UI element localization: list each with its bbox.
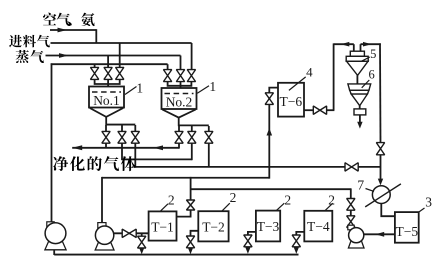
valve V3 on pump P2 discharge [122,229,136,237]
wire blower to T-5 [381,203,395,216]
arrow on H3 [59,53,69,58]
arrow up on T-6 riser [267,128,273,136]
label steam [16,50,29,63]
arrow drain T-2 [188,248,193,255]
callout line 6 [362,80,370,88]
valve V6b T-4 drain [292,235,300,247]
vessel No.1 [89,87,124,108]
cyclone C5 lid [350,51,364,56]
blower U7 circle [372,186,390,204]
label feed-gas [9,35,22,47]
wire pump P3 suction from T-5 [364,233,395,235]
wire H3 branch to valve V12 [107,56,109,69]
valve V1b [118,131,126,143]
arrow on H1 [58,28,68,33]
svg-text:6: 6 [368,68,374,82]
svg-text:2: 2 [328,193,335,208]
blower U7 diagonal [365,184,401,207]
wire left riser to pump P1 [51,63,53,222]
valve V9 on line C [345,163,358,171]
wire header Hc [102,177,269,179]
arrow cyclone6 dust outlet [357,122,362,129]
callout line 2a [160,204,168,212]
wire No.1 outlet stem [105,116,107,125]
arrow into blower [378,179,383,186]
valve V2a [175,131,183,143]
wire No.1 inlet drop [107,79,109,87]
wire top loop left column [333,43,335,110]
wire T-6 riser [268,92,270,179]
wire No.2 inlet manifold [168,81,192,86]
wire top loop right segment [361,43,381,45]
svg-text:No.2: No.2 [166,94,193,109]
svg-text:4: 4 [306,64,313,79]
wire line-A left drop [121,143,123,161]
valve V4 T-1 drain [138,236,146,248]
vessel No.1 funnel [90,108,123,117]
wire T-3 drain stub [248,232,256,236]
wire No.1 outlet manifold [106,124,135,126]
wire line-A [122,158,192,160]
valve V12 [104,67,112,79]
valve V22 [176,70,184,82]
wire T-6 outlet [304,109,313,111]
wire Hc drop to pump P2 [101,177,103,224]
arrow right on top loop [363,42,372,47]
wire valve stack to pump P3 [350,227,352,229]
wire H4 drop to valve V21 [167,64,169,70]
wire pump P2 discharge [114,232,149,234]
valve V21 [163,70,171,82]
level dashes in No.2 [165,93,194,95]
level dashes in No.1 [92,91,121,93]
wire header H4 recycle [51,63,168,65]
pump P2 [95,242,114,250]
valve V11 [90,67,98,79]
tank T-5 [395,212,419,243]
wire stub V2c to line-C [208,143,210,167]
wire header H1 air-ammonia [50,29,96,31]
valve V8 between T-1 and T-2 [186,200,194,210]
label purified-gas [53,156,68,171]
wire cyclone6 discharge [359,105,361,110]
valve V5 T-2 drain [186,236,194,248]
wire header H3 steam [46,55,181,57]
svg-text:T−5: T−5 [395,224,418,239]
arrow on purified-gas header [154,145,164,150]
vessel No.2 funnel [162,110,195,118]
svg-text:2: 2 [230,190,237,205]
rotary feeder under C6 [354,109,366,115]
wire header H2 feed-gas [51,42,192,44]
svg-text:7: 7 [357,177,364,192]
svg-text:T−4: T−4 [307,219,330,234]
svg-text:T−2: T−2 [202,220,225,235]
wire No.2 outlet manifold [179,124,209,126]
wire T-1 drain drop [141,233,143,236]
svg-text:3: 3 [425,195,432,210]
wire between stacked valves [350,209,352,216]
wire line-C left drop [134,143,136,168]
callout line 5 [362,57,370,61]
wire header Hd [191,188,351,190]
label air-ammonia [43,13,56,26]
arrow purified-gas outlet [72,145,82,150]
wire purified-gas header [72,147,179,149]
tank T-2 [198,211,228,241]
wire T-6 inlet from valve [268,93,270,103]
svg-text:2: 2 [284,193,291,208]
wire H2 drop to valve V23 [191,43,193,70]
svg-text:T−6: T−6 [279,94,302,109]
svg-text:T−1: T−1 [151,220,174,235]
wire cyclone inlet neck [353,44,355,51]
tank T-4 [304,211,332,242]
tank T-6 [278,83,304,117]
tank T-1 [149,211,177,240]
callout line 3 [419,208,425,212]
cyclone C6 cone [351,94,367,106]
valve V17 right of T-6 [313,106,326,114]
wire T-2 drain stub [191,231,199,237]
wire H2 branch to valve V13 [119,43,121,68]
valve V6 T-3 drain [244,235,252,247]
tank T-3 [256,211,280,242]
callout line 4 [289,77,306,91]
wire H4 stub to valve V11 [94,64,96,68]
svg-text:1: 1 [209,79,216,94]
wire bottom manifold [54,254,298,256]
wire valve V8 to T-1 side [176,209,191,217]
callout line 2c [276,203,284,210]
wire No.2 outlet stem [178,117,180,126]
valve V23 [187,70,195,82]
wire line-C [135,166,380,168]
wire Hd drop to valve stack [350,188,352,199]
valve V10 on right column [376,143,384,155]
cyclone C5 cone [347,61,368,75]
pump P3 [348,241,364,248]
wire No.1 manifold drops [105,125,107,132]
valve V13 [116,67,124,79]
callout line 2d [325,203,333,211]
wire stub V2a to header [178,143,180,149]
svg-text:1: 1 [136,81,143,96]
arrow drain T-4 [294,247,299,254]
valve V16 left of T-6 [265,93,273,105]
wire H3 drop to valve V22 [180,56,182,71]
wire drain drops [141,247,143,250]
wire No.1 inlet manifold [95,79,120,84]
svg-text:2: 2 [168,193,175,208]
valve V1a [102,131,110,143]
valve V15 stack lower [347,216,355,228]
wire cyclone5 to cyclone6 [356,75,358,85]
valve V2c [205,131,213,143]
svg-text:T−3: T−3 [257,219,280,234]
wire right column to blower [380,154,382,181]
wire No.2 inlet drop [180,81,182,89]
callout line 1a [125,87,137,95]
cyclone C6 lid [348,84,371,90]
wire H1 drop into H2 [95,29,97,43]
pump P1 [45,242,66,250]
wire No.2 manifold drops [178,126,180,132]
vessel No.2 [162,88,197,109]
wire stub V1a to header [105,143,107,148]
valve V2b [188,131,196,143]
arrow into pump P3 [375,232,384,237]
wire right column upper [379,43,382,143]
svg-text:5: 5 [370,47,376,61]
wire top loop left segment [334,43,354,45]
wire Hc drop to valve V8 [190,177,192,201]
wire manifold riser to pump P1 [53,247,55,255]
arrow drain T-3 [245,247,250,254]
arrow drain T-1 [139,248,144,255]
wire T-4 drain stub [296,232,304,236]
wire top loop bottom to valve V7 [327,109,335,111]
callout line 1b [197,86,209,93]
wire T-6 riser top bend [269,88,278,94]
valve V1c [131,131,139,143]
valve V14 stack upper [347,199,355,211]
callout line 7 [366,189,375,192]
wire line-A right riser [191,143,193,161]
callout line 2b [222,203,230,211]
arrow left on top loop [341,42,350,47]
svg-text:No.1: No.1 [93,93,120,108]
